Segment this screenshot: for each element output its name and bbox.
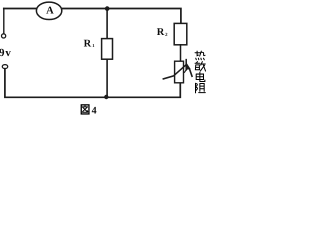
resistor R2 body xyxy=(174,23,187,44)
svg-text:4: 4 xyxy=(92,105,97,115)
thermistor RT body xyxy=(175,61,184,83)
ammeter A body xyxy=(36,2,61,19)
junction top node dot xyxy=(105,6,110,11)
resistor R1 body xyxy=(102,39,113,60)
label char re (hot) xyxy=(195,51,205,60)
label char tu (figure) of caption xyxy=(81,105,89,114)
node battery terminal upper xyxy=(2,34,6,38)
label char dian (electric) xyxy=(196,72,205,81)
wire R1 branch vertical xyxy=(106,9,108,98)
label char zu (resist) xyxy=(196,83,206,93)
thermistor arrow head strokes xyxy=(185,60,187,70)
wire left vertical from top rail to battery terminal xyxy=(3,9,5,34)
wire top rail with right drop to R2 xyxy=(4,9,181,24)
wire R2 to thermistor xyxy=(180,45,182,61)
svg-text:1: 1 xyxy=(92,43,95,48)
label char min (sensitive) xyxy=(195,62,205,71)
svg-text:9v: 9v xyxy=(0,47,12,59)
svg-text:A: A xyxy=(46,5,54,16)
thermistor diagonal foot and shaft xyxy=(163,65,186,79)
svg-text:R: R xyxy=(157,27,165,38)
svg-text:2: 2 xyxy=(165,32,168,38)
wire lower-left vertical and bottom rail xyxy=(5,69,180,98)
svg-text:R: R xyxy=(84,38,92,49)
junction bottom node dot xyxy=(104,95,108,99)
node battery terminal lower xyxy=(2,65,7,69)
